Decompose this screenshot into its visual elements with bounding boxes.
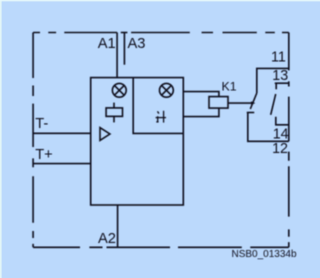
svg-text:T-: T- bbox=[35, 116, 48, 132]
element box (output relay symbol) bbox=[106, 108, 122, 116]
wire T- lead bbox=[33, 132, 91, 134]
border bottom (dashed) bbox=[33, 246, 289, 248]
wire terminal 11 bbox=[257, 68, 289, 93]
svg-text:A1: A1 bbox=[98, 36, 116, 52]
border top (dashed) bbox=[33, 32, 289, 34]
wire lamp area to element box bbox=[113, 103, 115, 108]
contact blade 13-14 bbox=[271, 94, 276, 115]
actuation arrow head bbox=[251, 101, 255, 105]
fixed contact tick 12 bbox=[247, 112, 254, 114]
svg-text:NSB0_01334b: NSB0_01334b bbox=[232, 249, 297, 260]
wire T+ lead bbox=[33, 163, 91, 165]
scan edge highlight left bbox=[0, 0, 2, 278]
svg-text:A3: A3 bbox=[128, 36, 146, 52]
wire terminal 12 bbox=[248, 113, 289, 142]
terminal tick A3 bbox=[121, 32, 128, 34]
wire box to K1 coil top bbox=[183, 92, 219, 97]
wire A2 lead bbox=[117, 205, 119, 247]
wire A3 lead bbox=[123, 33, 125, 65]
wire terminal 14 bbox=[276, 117, 289, 125]
wire A1 lead bbox=[116, 33, 118, 78]
lamp indicator right bbox=[160, 83, 174, 97]
stub below element box bbox=[113, 116, 115, 122]
svg-text:A2: A2 bbox=[98, 231, 116, 247]
wire K1 actuation bbox=[228, 102, 252, 104]
terminal tick 13 end mark bbox=[288, 81, 290, 86]
wire terminal 13 bbox=[275, 82, 289, 84]
relay coil K1 bbox=[209, 97, 228, 109]
symbol theta bbox=[156, 111, 166, 123]
border left (dashed) bbox=[32, 33, 34, 248]
svg-text:K1: K1 bbox=[222, 80, 237, 94]
border right (dashed) bbox=[288, 33, 290, 248]
svg-text:13: 13 bbox=[272, 68, 288, 84]
wire K1 coil bottom to box bbox=[183, 108, 219, 117]
lamp indicator left bbox=[112, 83, 126, 97]
inner sub-box divider bbox=[133, 78, 183, 134]
svg-text:12: 12 bbox=[272, 141, 288, 157]
svg-text:T+: T+ bbox=[35, 147, 53, 163]
amplifier triangle bbox=[100, 128, 110, 141]
contact blade 11-12 bbox=[250, 93, 256, 109]
svg-text:11: 11 bbox=[271, 50, 286, 66]
main device box bbox=[91, 78, 184, 205]
scan edge highlight top bbox=[0, 0, 320, 1]
